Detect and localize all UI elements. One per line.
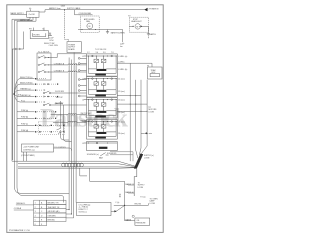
filter pin 2 — [43, 28, 45, 31]
power board output wire / bundle vertical 3 — [73, 53, 75, 167]
svg-text:T.L.C. BLOCK: T.L.C. BLOCK — [38, 51, 50, 53]
heater element bar 1a — [97, 69, 107, 71]
svg-text:SOLENOID (a): SOLENOID (a) — [87, 154, 99, 156]
svg-text:SELECTOR (b): SELECTOR (b) — [20, 83, 33, 85]
svg-text:SOLENOID: SOLENOID — [107, 153, 117, 155]
power board U1 — [67, 42, 81, 53]
svg-text:1 2: 1 2 — [87, 52, 90, 54]
svg-text:MAINS 2,5: MAINS 2,5 — [125, 183, 134, 186]
mains filter Z1 — [30, 31, 48, 39]
wire fan feed right — [122, 30, 124, 43]
wire row 4 — [14, 94, 34, 97]
svg-text:L GRILL (a): L GRILL (a) — [118, 56, 128, 58]
svg-text:SELECT SW: SELECT SW — [44, 43, 55, 45]
wire row 1 — [14, 79, 34, 94]
svg-text:(Fan SW): (Fan SW) — [55, 103, 63, 105]
terminal row 1 — [35, 78, 36, 79]
svg-text:(CLOCK/TIMER): (CLOCK/TIMER) — [21, 155, 35, 157]
svg-text:(b): (b) — [119, 196, 122, 198]
svg-text:THERMO (b): THERMO (b) — [20, 95, 31, 97]
svg-text:P.SW (d): P.SW (d) — [21, 130, 28, 132]
wire row 8 — [17, 124, 35, 126]
bundle vertical 4 — [75, 63, 77, 168]
relay board box — [77, 203, 125, 216]
svg-text:TO (x): TO (x) — [140, 196, 145, 198]
terminal row 3 — [35, 90, 36, 91]
svg-text:HEADLIGHT: HEADLIGHT — [131, 20, 142, 23]
thermal cutout column — [78, 57, 86, 97]
terminal row 5 — [35, 101, 36, 102]
cooling fan label underline — [79, 14, 93, 16]
wire bus left line 2 — [15, 20, 70, 193]
TLC switch 3 — [38, 70, 49, 73]
fan wire bottom — [78, 28, 123, 31]
svg-text:MAINS (b): MAINS (b) — [125, 191, 134, 194]
table feed wires — [66, 210, 74, 218]
wedge drop wire — [134, 169, 137, 196]
svg-text:SW TOP: SW TOP — [56, 97, 64, 99]
ground G2 — [147, 26, 150, 38]
left connector rows — [13, 79, 64, 135]
bundle vertical 2 — [71, 60, 73, 164]
heater element bar 2b — [95, 94, 106, 96]
dashed wire row 8 — [37, 124, 60, 126]
lamp symbol — [132, 215, 134, 217]
splice row 9 — [39, 131, 40, 132]
grill feed wire — [117, 63, 152, 67]
oil pressure box — [135, 218, 150, 225]
page background — [0, 0, 170, 240]
svg-text:C (x): C (x) — [115, 202, 119, 204]
svg-text:7 8: 7 8 — [111, 52, 114, 54]
svg-text:5 6: 5 6 — [103, 52, 106, 54]
loom loops — [62, 163, 84, 167]
rung 2 — [117, 103, 147, 105]
svg-text:MAINS: MAINS — [125, 218, 131, 221]
svg-text:BROWN / TH: BROWN / TH — [48, 203, 59, 205]
svg-text:SUPPLY CABLE: SUPPLY CABLE — [67, 7, 81, 10]
wire row 9 — [17, 131, 35, 133]
svg-text:PRESSURE: PRESSURE — [136, 223, 147, 225]
connector table — [14, 200, 74, 226]
solenoid switch — [100, 153, 108, 156]
svg-text:LOOM: LOOM — [150, 203, 156, 205]
node a leader — [30, 9, 32, 11]
filter pin 1 — [33, 28, 35, 31]
supply loom wedge — [134, 154, 143, 169]
svg-text:MAINS CABLE: MAINS CABLE — [20, 19, 33, 22]
heater element bar 4b — [95, 136, 106, 138]
node DAS junction — [64, 9, 65, 10]
dashed wire row 5 — [37, 101, 43, 103]
svg-text:/COSA.B: /COSA.B — [14, 207, 22, 210]
triac box U2 — [148, 67, 163, 79]
solenoid link wires — [110, 152, 133, 161]
dashed wire row 4 — [37, 96, 58, 98]
lamp motor M2 — [135, 24, 140, 29]
svg-text:C1 (xxx): C1 (xxx) — [118, 79, 125, 81]
bundle vertical 1 — [68, 58, 70, 162]
splice row 8 — [39, 125, 40, 126]
svg-text:L3: L3 — [82, 99, 84, 101]
wire row 6 — [17, 111, 35, 113]
svg-text:C3 (xxx): C3 (xxx) — [118, 100, 125, 102]
dashed wire row 9 — [37, 131, 60, 133]
svg-text:F2: F2 — [128, 16, 130, 18]
svg-text:+12V POWER UNIT: +12V POWER UNIT — [23, 146, 40, 148]
splice row 4 — [48, 96, 49, 97]
splice row 2 — [48, 84, 49, 85]
svg-text:On/Off: On/Off — [29, 14, 35, 16]
wire row 3 — [14, 90, 34, 94]
wire bus left line 3 — [17, 21, 64, 202]
ground G1 — [106, 30, 109, 34]
TLC wire 3 — [49, 71, 87, 72]
door lock module — [84, 142, 117, 151]
svg-text:6: 6 — [35, 224, 36, 226]
dashed wire row 3 — [37, 89, 43, 91]
terminal row 4 — [35, 96, 36, 97]
svg-text:L2: L2 — [82, 78, 84, 80]
oven switch wire B — [53, 121, 87, 122]
terminal row 6 — [35, 111, 36, 112]
door switch S2 — [43, 91, 86, 94]
top mains line — [39, 10, 145, 12]
clock timer box — [22, 144, 72, 161]
svg-text:CONTACT A: CONTACT A — [54, 62, 65, 65]
fan motor M1 — [87, 23, 93, 29]
svg-text:P.SW (a): P.SW (a) — [21, 110, 28, 112]
svg-text:LOOM: LOOM — [149, 112, 155, 114]
svg-text:GROUND (AL): GROUND (AL) — [48, 210, 60, 213]
wire DAS drop to power board — [65, 10, 69, 42]
svg-text:BRN (M): BRN (M) — [48, 220, 55, 222]
svg-text:fan: fan — [120, 46, 123, 48]
door lock element bar — [99, 147, 108, 149]
svg-text:CONTACT B: CONTACT B — [54, 69, 65, 72]
capacitor C1 — [48, 33, 52, 36]
mains supply label — [11, 14, 27, 16]
switch riser 2 — [64, 105, 72, 142]
lamp switch S3 — [43, 103, 86, 106]
junction connector J2 — [12, 32, 24, 50]
svg-text:COOLING FAN: COOLING FAN — [79, 12, 92, 15]
row chevrons — [44, 83, 46, 119]
svg-text:BOARD: BOARD — [68, 48, 75, 51]
svg-text:1: 1 — [35, 203, 36, 205]
wire bus right 3 — [139, 80, 141, 155]
svg-text:2: 2 — [35, 207, 36, 209]
svg-text:x wire: x wire — [147, 133, 152, 135]
svg-text:C2 (xxx): C2 (xxx) — [118, 91, 125, 93]
loom drop wires — [69, 167, 87, 218]
heater element bar 2a — [97, 90, 107, 92]
splice row 7 — [55, 118, 56, 119]
wire bus left line 4 — [12, 49, 14, 160]
wire to cooling fan — [75, 10, 81, 15]
heater element bar 3a — [97, 111, 107, 113]
on/off switch box S1 — [27, 11, 39, 17]
bottom wire bus — [12, 161, 136, 168]
svg-text:L POWER IN: L POWER IN — [148, 9, 159, 11]
dashed wire row 7 — [37, 117, 56, 119]
wire bus right 1 — [129, 63, 131, 161]
wire bus right 2 — [136, 80, 138, 158]
table labels underline — [14, 205, 34, 210]
svg-text:LOOM: LOOM — [138, 187, 144, 189]
switch riser 1 — [60, 101, 69, 140]
dashed connector block — [39, 122, 65, 135]
svg-text:L-GRILL: L-GRILL — [118, 62, 125, 64]
svg-text:DAS: DAS — [61, 5, 66, 8]
dashed wire row 2 — [37, 83, 58, 85]
wire bus left line 1 — [11, 19, 13, 161]
svg-text:3 4: 3 4 — [96, 52, 99, 54]
terminal row 9 — [35, 131, 36, 132]
svg-text:THERMO (a): THERMO (a) — [20, 89, 31, 91]
loom connector arrow — [145, 132, 147, 134]
heater module 1 — [84, 54, 117, 76]
svg-text:L GRILL (b): L GRILL (b) — [118, 69, 128, 71]
right column wires — [117, 63, 152, 161]
svg-text:OMEGA CL: OMEGA CL — [16, 202, 25, 205]
svg-text:C5 (xxx): C5 (xxx) — [118, 121, 125, 123]
heater element bar 4a — [97, 132, 107, 134]
wire row 2 — [14, 84, 34, 94]
top line junction diamond — [144, 8, 147, 12]
heater module 4 — [84, 119, 117, 139]
node J07 blob — [13, 93, 15, 95]
svg-text:C6 (xxx): C6 (xxx) — [118, 133, 125, 135]
stop headlight dashed enclosure F2 — [129, 17, 148, 32]
wire from switch to bus — [12, 17, 36, 21]
dashed wire row 6 — [37, 111, 56, 113]
dashed wire row 1 — [37, 78, 46, 80]
svg-text:P.SW (c): P.SW (c) — [21, 124, 28, 126]
TLC wire 1 — [49, 54, 87, 58]
bottom right riser — [90, 168, 149, 220]
border frame — [7, 5, 163, 233]
svg-text:L1: L1 — [82, 56, 84, 58]
svg-text:LOOM: LOOM — [144, 157, 150, 159]
svg-text:PV/OMASTER C #10: PV/OMASTER C #10 — [9, 229, 31, 232]
fan switch S4 — [57, 128, 63, 134]
svg-text:P (a): P (a) — [21, 100, 25, 102]
svg-text:CONTROL (a): CONTROL (a) — [23, 149, 35, 151]
svg-text:/ BROWN: / BROWN — [48, 215, 57, 217]
svg-text:FILTER: FILTER — [34, 35, 41, 37]
wire bus right 4 — [141, 80, 147, 154]
svg-text:4: 4 — [35, 215, 36, 217]
svg-text:MAINS SUPPLY: MAINS SUPPLY — [11, 12, 25, 15]
heater module 3 — [84, 98, 117, 119]
svg-text:P.SW (b): P.SW (b) — [21, 117, 28, 119]
svg-text:EARTH: EARTH — [150, 33, 157, 36]
TLC switch 1 — [38, 56, 49, 59]
wire row 5 — [14, 94, 34, 102]
splice row 6 — [55, 111, 56, 112]
svg-text:F1: F1 — [147, 65, 149, 67]
svg-text:HEL PA: HEL PA — [135, 203, 142, 206]
rung 3 — [117, 110, 147, 112]
svg-text:SW TOP (a): SW TOP (a) — [81, 113, 91, 115]
wire row 7 — [17, 117, 35, 119]
svg-text:DOOR SW: DOOR SW — [55, 91, 64, 93]
TLC wire 2 — [49, 64, 87, 65]
svg-text:TO CONTROL: TO CONTROL — [54, 147, 66, 149]
TLC block terminal box — [37, 53, 51, 80]
oven switch wire A — [51, 114, 87, 115]
svg-text:GOOD (c): GOOD (c) — [79, 211, 87, 213]
svg-text:SW FAN (b): SW FAN (b) — [81, 120, 91, 123]
heater module 2 — [84, 77, 117, 98]
svg-text:C4 (xxx): C4 (xxx) — [118, 112, 125, 114]
svg-text:SELECTOR (a): SELECTOR (a) — [20, 77, 33, 79]
svg-text:L5: L5 — [82, 143, 84, 145]
terminal row 8 — [35, 125, 36, 126]
heater element bar 3b — [95, 115, 106, 117]
terminal row 7 — [35, 118, 36, 119]
svg-text:3: 3 — [35, 211, 36, 213]
rung 1 — [117, 95, 141, 97]
cooling fan dashed enclosure — [80, 16, 99, 32]
TLC switch 2 — [38, 63, 49, 66]
svg-text:EARTH SCREEN: EARTH SCREEN — [111, 32, 126, 35]
svg-text:THE REST OF: THE REST OF — [48, 207, 61, 209]
svg-text:T.O.P. BLOCK: T.O.P. BLOCK — [95, 49, 107, 51]
svg-text:5: 5 — [35, 220, 36, 222]
heater element bar 1b — [95, 73, 106, 75]
svg-text:MAINS 1,5mm: MAINS 1,5mm — [49, 7, 61, 10]
terminal row 2 — [35, 84, 36, 85]
